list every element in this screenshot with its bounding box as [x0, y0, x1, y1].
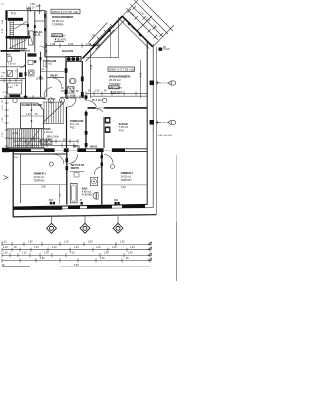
- box with diagonal: [8, 71, 13, 77]
- right wall window black mid1: [150, 81, 154, 86]
- svg-text:1.50: 1.50: [120, 242, 125, 244]
- diagonal SE hatch blacks: [127, 22, 142, 37]
- svg-text:4.10: 4.10: [70, 253, 75, 255]
- small room box left: [8, 83, 22, 94]
- room1 top wall: [13, 153, 66, 155]
- svg-text:W.C: W.C: [7, 53, 12, 56]
- svg-text:1.40: 1.40: [128, 253, 133, 255]
- svg-text:BL.AL: BL.AL: [34, 34, 42, 37]
- washing fixtures: [41, 139, 47, 145]
- svg-text:2.02: 2.02: [95, 91, 100, 93]
- svg-text:1.96: 1.96: [31, 139, 36, 141]
- svg-text:2.02: 2.02: [46, 139, 51, 141]
- room2 door arc: [104, 155, 113, 164]
- svg-text:1.10: 1.10: [64, 242, 69, 244]
- svg-text:1.30: 1.30: [2, 117, 4, 122]
- thick south terrace wall with round windows: [66, 57, 81, 62]
- round window 1: [67, 57, 71, 61]
- black blob left of main wall: [2, 148, 9, 152]
- bathtub: [70, 183, 77, 202]
- window blacks x66.5: [65, 68, 68, 73]
- window blacks x40.5: [40, 57, 42, 60]
- svg-text:B.01: B.01: [14, 157, 19, 159]
- window blacks x86: [85, 95, 88, 98]
- round window 3: [76, 57, 80, 61]
- svg-text:SW-80: SW-80: [90, 147, 98, 149]
- kitchen door arc: [96, 108, 105, 117]
- interior dim vline x140: [139, 60, 141, 98]
- chain ticks y80.5: [0, 79, 22, 82]
- left outer wall thick segment: [5, 10, 7, 20]
- wall x46.8 upper double: [46, 11, 48, 57]
- divider wall y78.6: [0, 78, 26, 80]
- small fixture rect 1: [28, 60, 33, 64]
- room2 dim line: [102, 184, 147, 186]
- svg-text:17x17.6/28: 17x17.6/28: [44, 99, 56, 101]
- bottom dim row 1: [2, 242, 150, 246]
- divider y71.5: [40, 71, 64, 73]
- landing line: [14, 24, 28, 26]
- bottom eaves line: [13, 215, 157, 217]
- svg-text:1.10: 1.10: [96, 247, 101, 249]
- wall below left: [6, 52, 8, 97]
- svg-text:TEPPICH: TEPPICH: [34, 179, 45, 182]
- kitchen wall x104: [103, 108, 105, 148]
- svg-text:BF 2.20m: BF 2.20m: [92, 99, 102, 102]
- wall x86 lower thick: [85, 98, 87, 148]
- svg-text:1.30: 1.30: [26, 114, 31, 116]
- vertical dim x17: [16, 68, 18, 79]
- circle fixture 2: [59, 98, 64, 103]
- top small room divider: [35, 20, 46, 22]
- svg-text:1.10: 1.10: [130, 247, 135, 249]
- bath right wall: [101, 152, 103, 205]
- left wall x46 mid: [46, 57, 48, 97]
- svg-text:BALKON: BALKON: [62, 49, 73, 53]
- bottom rooms left outer wall: [12, 152, 14, 217]
- room1 circle marker: [49, 162, 53, 166]
- svg-text:TOPPEN: TOPPEN: [109, 82, 120, 86]
- ladder stair rungs: [10, 23, 14, 35]
- upper wall thin y57: [45, 56, 66, 58]
- bottom dim row labels 1: [2, 242, 125, 244]
- grid marker diamond 3: [113, 223, 123, 233]
- svg-text:BRH 2.00m: BRH 2.00m: [47, 137, 59, 139]
- black on corridor wall: [65, 102, 67, 106]
- small circles row y99: [13, 98, 17, 102]
- pentagon inner hline: [21, 115, 44, 117]
- svg-text:B03: B03: [49, 200, 54, 202]
- svg-text:P.V.: P.V.: [11, 12, 17, 16]
- svg-text:1.38: 1.38: [50, 42, 56, 46]
- hatch band extension: [41, 129, 43, 148]
- svg-text:1.10: 1.10: [74, 247, 79, 249]
- extension lines perpendicular: [122, 0, 139, 16]
- top-left block outer top wall: [8, 10, 46, 12]
- stair top wall thick black: [8, 18, 23, 21]
- WC room fixtures: [70, 79, 77, 84]
- divider wall y77.4: [47, 76, 64, 78]
- svg-text:4.80: 4.80: [30, 3, 35, 6]
- chain ticks y92 wing: [86, 91, 147, 95]
- circle fixture 1: [48, 98, 53, 103]
- wall x=45 vertical: [44, 11, 46, 57]
- lift shaft window black: [27, 24, 29, 27]
- bottom dim row labels 2: [3, 247, 135, 249]
- dim chains NW of NE-wall: [89, 23, 112, 47]
- section line vertical right: [176, 155, 178, 222]
- svg-text:WHG 2 (77.30 m2): WHG 2 (77.30 m2): [52, 10, 78, 14]
- external stair hatch band: [8, 129, 38, 148]
- round window 2: [71, 57, 75, 61]
- stair run risers: [11, 39, 25, 49]
- row1 end triangle: [148, 242, 151, 245]
- stair run rails: [9, 38, 27, 40]
- svg-text:FLIESEN: FLIESEN: [82, 193, 93, 196]
- right wall inner: [146, 42, 148, 205]
- tiny labels cluster: [1, 69, 45, 94]
- bottom dim row labels 3: [3, 253, 133, 255]
- room1 dim line: [21, 184, 66, 186]
- stairs middle diagonal: [43, 103, 64, 123]
- WHG2 BRH box: [52, 34, 63, 37]
- bottom dim row 3: [2, 253, 150, 257]
- svg-text:3.85: 3.85: [41, 186, 46, 189]
- top dim ticks x39: [37, 10, 42, 12]
- wall y98.4: [0, 97, 45, 99]
- window black bottom 3: [115, 202, 117, 205]
- window black bottom 1: [50, 202, 52, 205]
- svg-text:+1.50: +1.50: [12, 132, 19, 135]
- svg-text:3.10: 3.10: [121, 186, 126, 189]
- diagonal wall NE inner: [86, 20, 126, 62]
- bottom wall solid segments: [13, 207, 62, 210]
- svg-text:4.43: 4.43: [68, 42, 74, 46]
- appliance front line: [70, 171, 85, 173]
- svg-text:1.30: 1.30: [3, 253, 8, 255]
- window black bottom 2: [81, 202, 83, 205]
- tick cluster top x28: [27, 8, 32, 13]
- pentagon inner vline: [31, 103, 33, 129]
- diagonal wall NE outer: [83, 16, 123, 58]
- svg-text:1.40: 1.40: [8, 87, 13, 89]
- svg-text:TEPPICH: TEPPICH: [121, 179, 132, 182]
- svg-text:4.35 m2: 4.35 m2: [44, 131, 53, 134]
- diagonal wall SE inner: [120, 19, 150, 49]
- left mid block: wall x25.5: [25, 52, 27, 98]
- door arc left mid: [20, 62, 26, 68]
- WHG3 BRH box: [109, 86, 120, 89]
- svg-text:SW-80: SW-80: [50, 75, 58, 78]
- wall y=52 horizontal: [1, 50, 21, 52]
- appliance small box: [74, 172, 79, 177]
- svg-text:1.10: 1.10: [52, 247, 57, 249]
- wall between room1 and bath: [66, 152, 68, 205]
- svg-text:TOPPEN: TOPPEN: [52, 23, 63, 27]
- lift shaft wall: [27, 11, 29, 37]
- interior line 2: [110, 27, 112, 58]
- vanity with basin: [90, 177, 97, 185]
- bottom rooms left inner wall: [20, 154, 22, 203]
- svg-text:1.10: 1.10: [17, 139, 22, 141]
- SCHMUTZRAUM pentagon room: [21, 103, 44, 129]
- fork marker 1: [157, 81, 176, 86]
- left outer wall: [6, 20, 8, 52]
- NW diagonal extra chain: [96, 30, 115, 50]
- WHG2 label box: [51, 9, 80, 14]
- wall x82 upper: [81, 61, 83, 98]
- room1 door arc: [55, 155, 64, 164]
- wall x=35: [34, 11, 36, 52]
- svg-text:WHG 3 (77.30 m2): WHG 3 (77.30 m2): [109, 68, 134, 72]
- dim chain y140-146: [14, 139, 78, 147]
- room1 vertical dim: [59, 185, 61, 204]
- svg-text:1.10: 1.10: [2, 105, 4, 110]
- dim chain y97 right part: [60, 95, 84, 99]
- left chain labels: [2, 100, 4, 137]
- svg-text:ZIMMER 1: ZIMMER 1: [34, 172, 47, 176]
- svg-text:PVC: PVC: [70, 126, 75, 129]
- top dim vline x39: [38, 4, 40, 14]
- main middle wall: [9, 148, 147, 152]
- svg-text:1.50: 1.50: [104, 253, 109, 255]
- dark fixture: [19, 73, 23, 78]
- arrow mark left: [4, 176, 9, 180]
- left mid block: wall x40.5: [40, 52, 42, 97]
- bottom dim row 4: [2, 259, 150, 263]
- svg-text:3.60: 3.60: [88, 242, 93, 244]
- corridor door arc: [68, 99, 77, 108]
- svg-text:0.50 1.50 0.50: 0.50 1.50 0.50: [158, 135, 173, 137]
- stair band diagonal: [26, 130, 40, 147]
- lift cross mark: [29, 31, 34, 45]
- svg-text:1.50: 1.50: [28, 242, 33, 244]
- door arc into corridor: [40, 46, 47, 53]
- bottom dim row 5 short: [2, 266, 30, 268]
- dark label box AR: [28, 53, 37, 56]
- room2 circle marker: [111, 165, 115, 169]
- row4 end triangle: [148, 258, 151, 261]
- right wall eaves line: [155, 47, 157, 215]
- shower square: [68, 87, 75, 94]
- grid marker diamond 2: [80, 223, 90, 233]
- left vertical dim chain: [6, 97, 8, 152]
- hatch band borders: [7, 128, 40, 130]
- diagonal wall NE hatch blacks: [92, 28, 111, 47]
- window blacks x82: [81, 77, 84, 82]
- svg-text:1.10: 1.10: [3, 247, 8, 249]
- divider wall y66.8: [0, 66, 26, 68]
- grid marker stems: [51, 216, 53, 224]
- svg-text:ZIMMER 2: ZIMMER 2: [121, 171, 134, 175]
- fork marker 2: [157, 120, 176, 125]
- svg-text:1.50: 1.50: [40, 258, 45, 260]
- bottom dim row 2: [2, 248, 150, 252]
- bath door arc: [94, 167, 102, 175]
- wc: [93, 192, 97, 199]
- right wall outer: [152, 44, 154, 208]
- svg-text:1.80: 1.80: [69, 90, 74, 93]
- svg-text:4.60: 4.60: [36, 4, 42, 8]
- wing floor wall y108: [86, 107, 147, 109]
- svg-text:WM/TR: WM/TR: [71, 167, 79, 170]
- svg-text:1.10: 1.10: [34, 247, 39, 249]
- stair mid landing diagonal: [14, 22, 27, 30]
- dim chains NE of SE-wall: [122, 0, 174, 47]
- window black x45: [44, 14, 46, 18]
- right wall window black mid2: [150, 120, 154, 125]
- loggia edge y96: [90, 95, 147, 97]
- svg-text:1.10: 1.10: [22, 253, 27, 255]
- row3 end triangle: [148, 253, 151, 256]
- mid wall y=37 dark band: [6, 36, 31, 39]
- stair run diagonal cut: [10, 40, 26, 48]
- big door arc x86 wall: [87, 100, 98, 111]
- svg-text:PVC: PVC: [119, 129, 124, 132]
- WHG3 label box: [108, 67, 135, 71]
- SE chain ticks: [128, 6, 164, 39]
- svg-text:4.43: 4.43: [140, 72, 143, 77]
- interior vertical line under apex: [118, 17, 120, 58]
- dark window band bottom-left: [10, 95, 21, 98]
- svg-text:1.50: 1.50: [2, 132, 4, 137]
- bottom wall outer line: [13, 208, 153, 210]
- svg-text:SW-80: SW-80: [73, 147, 81, 149]
- door gap in wall x86: [85, 100, 88, 110]
- door gap in wall x66.5: [65, 99, 68, 107]
- NW chain ticks: [90, 24, 114, 48]
- door gap in wall x104: [103, 109, 106, 118]
- wc fixture: [7, 57, 12, 62]
- stairs middle (x42-64) rails: [43, 101, 65, 103]
- pentagon dots: [31, 109, 33, 111]
- tail dim top window: [162, 48, 170, 50]
- blacks on bath left wall: [66, 158, 69, 162]
- svg-text:17x17.6/28: 17x17.6/28: [14, 49, 27, 52]
- svg-text:B03: B03: [114, 200, 119, 202]
- terrace floor line: [86, 57, 119, 59]
- wall x66.5 thick: [65, 61, 67, 98]
- stairs middle risers: [44, 102, 63, 124]
- lift box: [29, 31, 34, 45]
- svg-text:1.10: 1.10: [44, 253, 49, 255]
- dim chain y45: [46, 43, 99, 47]
- svg-text:2.40: 2.40: [100, 258, 105, 260]
- bottom dim row labels 4: [40, 258, 129, 260]
- svg-text:+2.50: +2.50: [2, 92, 8, 94]
- row2 end triangle: [148, 247, 151, 250]
- door arc into room left: [44, 88, 52, 96]
- svg-text:1.60 m2: 1.60 m2: [8, 63, 17, 65]
- small fixture rect 2 with circle: [29, 70, 35, 76]
- door arc lower left: [53, 78, 62, 87]
- dim chain y97 horizontal: [5, 95, 45, 99]
- bottom wall inner line: [13, 204, 147, 207]
- window black x25.5: [25, 72, 27, 76]
- right wall small ticks: [156, 81, 161, 124]
- blacks on bath right wall: [101, 155, 103, 158]
- diagonal wall SE outer: [122, 16, 153, 47]
- svg-text:2.38: 2.38: [90, 64, 93, 69]
- dim vline x90: [90, 48, 92, 98]
- svg-text:1.10: 1.10: [112, 247, 117, 249]
- grid marker diamond 1: [47, 223, 57, 233]
- corridor-bath door arc: [69, 155, 78, 164]
- corridor wall x66.5 lower: [66, 98, 68, 148]
- ladder stair rails: [9, 21, 11, 37]
- left wall tiny labels: [2, 19, 4, 33]
- svg-text:1.10: 1.10: [2, 242, 7, 244]
- window black on x35 wall: [34, 25, 36, 28]
- kitchen units dark: [105, 117, 111, 124]
- svg-text:2.02: 2.02: [70, 87, 75, 90]
- right wall window black top: [159, 48, 162, 51]
- svg-text:PVC: PVC: [43, 65, 48, 68]
